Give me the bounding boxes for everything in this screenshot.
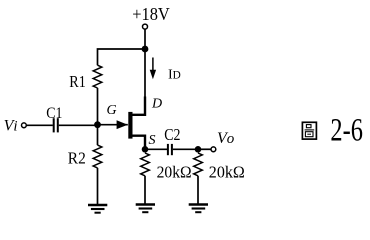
capacitor C1 — [54, 118, 58, 132]
JFET source lead — [131, 136, 145, 147]
source node junction dot — [142, 146, 149, 153]
wire supply terminal to rail junction — [144, 29, 146, 49]
svg-text:20kΩ: 20kΩ — [209, 162, 245, 181]
wire rail junction left and down to R1 top — [98, 49, 146, 65]
svg-text:Vi: Vi — [4, 118, 18, 135]
capacitor C2 — [168, 144, 172, 155]
JFET gate arrowhead — [117, 120, 128, 129]
gate node junction dot — [94, 121, 101, 128]
svg-text:S: S — [149, 133, 156, 148]
wire R1 bottom to gate junction — [97, 88, 99, 125]
ID current arrow — [152, 58, 154, 71]
svg-text:C2: C2 — [164, 125, 180, 144]
svg-text:ID: ID — [168, 68, 181, 83]
wire rail junction down to drain lead — [144, 49, 146, 97]
svg-text:G: G — [107, 103, 117, 118]
svg-text:+18V: +18V — [132, 4, 170, 24]
wire RS to ground — [144, 176, 146, 204]
wire RL to ground — [197, 176, 199, 204]
svg-text:R2: R2 — [68, 148, 86, 167]
JFET gate lead wire — [98, 124, 128, 126]
resistor RS 20k (source resistor) — [141, 153, 150, 176]
svg-text:C1: C1 — [46, 105, 62, 122]
input terminal Vi (open circle) — [22, 123, 27, 128]
JFET channel bar — [128, 112, 132, 139]
junction dot at VDD rail — [142, 46, 149, 53]
supply terminal (open circle) — [143, 24, 148, 29]
output terminal Vo (open circle) — [211, 147, 216, 152]
svg-text:20kΩ: 20kΩ — [157, 162, 192, 181]
wire C2 to output node — [173, 148, 198, 150]
wire R2 bottom to ground — [97, 168, 99, 205]
ground symbol under RS — [136, 205, 155, 213]
wire output node to Vo terminal — [198, 148, 211, 150]
wire gate junction down to R2 top — [97, 125, 99, 145]
JFET drain lead — [131, 97, 145, 115]
svg-text:Vo: Vo — [217, 130, 235, 147]
svg-text:R1: R1 — [69, 72, 86, 91]
wire C1 to gate junction — [59, 124, 98, 126]
svg-text:D: D — [151, 97, 162, 112]
wire input terminal to C1 — [26, 124, 53, 126]
ground symbol under R2 — [88, 205, 107, 213]
resistor R1 — [93, 65, 102, 88]
resistor R2 — [93, 145, 102, 168]
figure caption: hand-drawn CJK glyph for "圖" — [302, 122, 316, 139]
ground symbol under RL — [189, 205, 208, 213]
resistor RL 20k (load resistor) — [194, 153, 203, 176]
wire source node to C2 — [145, 148, 167, 150]
svg-text:2-6: 2-6 — [330, 113, 363, 149]
output node junction dot — [195, 146, 202, 153]
